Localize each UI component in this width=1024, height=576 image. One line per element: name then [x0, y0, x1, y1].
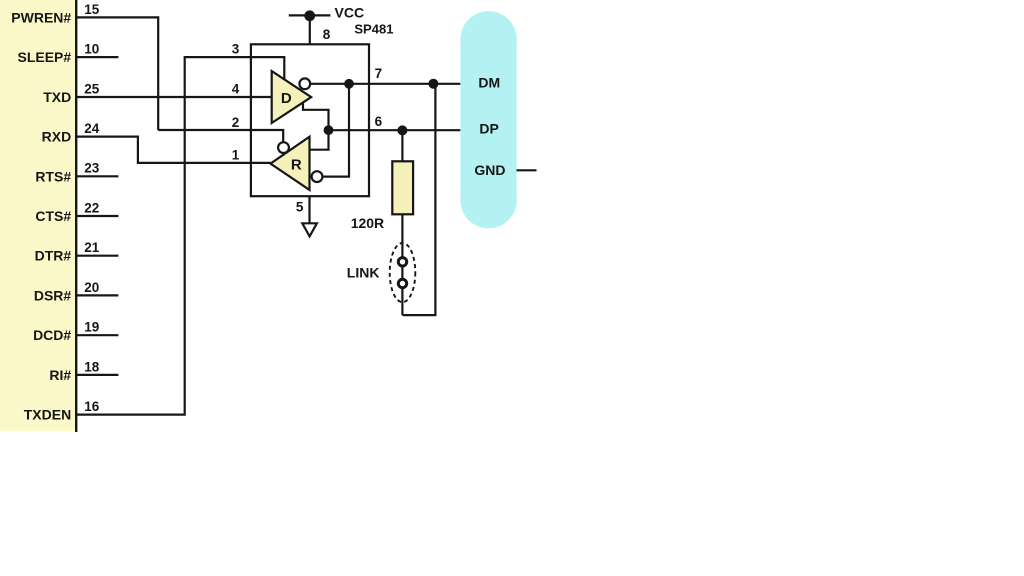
svg-text:4: 4 [232, 82, 240, 97]
wire pin 7 DM line [311, 83, 461, 85]
wire receiver input A [310, 130, 329, 150]
svg-text:15: 15 [84, 2, 100, 17]
svg-text:R: R [291, 157, 302, 174]
inverter bubble driver output [299, 78, 310, 89]
wire resistor to link [401, 214, 403, 315]
svg-text:6: 6 [375, 114, 383, 129]
svg-text:8: 8 [323, 27, 331, 42]
svg-text:3: 3 [232, 41, 240, 56]
jumper LINK dashed outline [390, 243, 416, 302]
svg-text:DM: DM [478, 75, 500, 91]
svg-text:19: 19 [84, 320, 99, 335]
junction dot DM node [428, 79, 438, 89]
wire GND stub [517, 169, 537, 171]
svg-text:SP481: SP481 [354, 21, 393, 36]
wire DP to resistor [401, 130, 403, 161]
resistor 120R [392, 161, 413, 214]
svg-text:VCC: VCC [335, 5, 365, 21]
svg-text:DCD#: DCD# [33, 327, 71, 343]
DB25 connector block [0, 0, 75, 431]
svg-text:DSR#: DSR# [34, 287, 72, 303]
svg-text:D: D [281, 90, 292, 107]
svg-text:PWREN#: PWREN# [11, 9, 71, 25]
svg-text:5: 5 [296, 199, 304, 214]
junction dot VCC [304, 10, 315, 21]
DB25 connector right border [75, 0, 77, 432]
inverter bubble receiver input B [312, 171, 323, 182]
svg-text:TXDEN: TXDEN [24, 407, 71, 423]
junction dot pin 7 node [344, 79, 354, 89]
wire DTR# stub [75, 255, 118, 257]
svg-text:2: 2 [232, 115, 240, 130]
wire link return to DM [403, 84, 436, 315]
junction dot pin 6 node [324, 125, 334, 135]
wire TXD to pin 4 driver input [75, 96, 272, 98]
wire pin 8 VCC [309, 16, 311, 45]
inverter bubble receiver enable [278, 142, 289, 153]
svg-text:18: 18 [84, 359, 100, 374]
svg-text:21: 21 [84, 240, 100, 255]
driver U1A triangle D [272, 71, 312, 123]
svg-text:CTS#: CTS# [35, 208, 71, 224]
wire CTS# stub [75, 215, 118, 217]
svg-text:RTS#: RTS# [35, 168, 71, 184]
wire DCD# stub [75, 334, 118, 336]
ground symbol [302, 223, 317, 236]
svg-text:23: 23 [84, 161, 100, 176]
svg-text:GND: GND [474, 162, 505, 178]
wire PWREN# pin 15 [75, 17, 158, 130]
USB connector capsule [460, 11, 516, 228]
svg-text:1: 1 [232, 148, 240, 163]
wire SLEEP# stub [75, 56, 118, 58]
svg-text:LINK: LINK [347, 265, 380, 281]
svg-text:DP: DP [479, 120, 498, 136]
wire DSR# stub [75, 294, 118, 296]
jumper pad top [398, 258, 406, 266]
wire TXDEN to pin 3 driver enable [75, 57, 284, 415]
svg-text:25: 25 [84, 81, 100, 96]
IC U1 SP481 body [251, 44, 369, 196]
svg-text:16: 16 [84, 399, 100, 414]
wire pin 2 receiver enable from PWREN# [158, 130, 283, 142]
jumper pad bottom [398, 279, 406, 287]
wire pin 5 ground [308, 196, 310, 223]
wire pin 6 DP line [329, 129, 461, 131]
svg-text:RXD: RXD [42, 129, 72, 145]
wire driver output A staircase to pin 6 [303, 102, 329, 130]
svg-text:120R: 120R [351, 215, 384, 231]
svg-text:TXD: TXD [43, 89, 71, 105]
svg-text:22: 22 [84, 200, 99, 215]
svg-text:24: 24 [84, 121, 100, 136]
junction dot DP node [397, 125, 407, 135]
svg-text:RI#: RI# [49, 367, 71, 383]
wire RTS# stub [75, 175, 118, 177]
wire receiver input B to pin 7 [323, 84, 349, 177]
wire RXD to pin 1 receiver output [75, 137, 271, 163]
svg-text:20: 20 [84, 280, 99, 295]
svg-text:SLEEP#: SLEEP# [17, 49, 71, 65]
wire RI# stub [75, 374, 118, 376]
wire VCC rail [289, 14, 331, 16]
svg-text:10: 10 [84, 42, 99, 57]
svg-text:7: 7 [375, 66, 383, 81]
receiver U1B triangle R [271, 137, 310, 190]
svg-text:DTR#: DTR# [35, 248, 72, 264]
